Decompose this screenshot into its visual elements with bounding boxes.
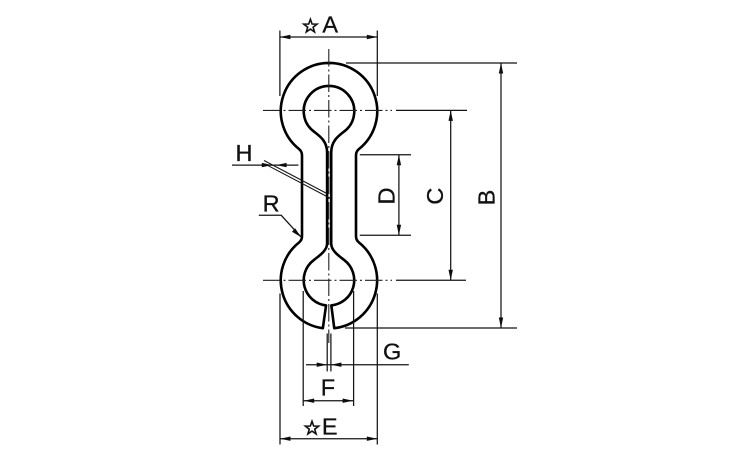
centerline vertical axis (dash-dot) bbox=[328, 49, 330, 343]
centerline top hole (horizontal dash-dot) bbox=[263, 109, 467, 111]
dimension H line bbox=[232, 163, 298, 167]
label F bbox=[321, 374, 335, 400]
svg-text:E: E bbox=[322, 414, 338, 440]
dimension D extension line top bbox=[360, 154, 411, 156]
dimension F extension line left bbox=[302, 291, 304, 406]
svg-text:C: C bbox=[422, 188, 448, 205]
label E bbox=[322, 414, 338, 440]
svg-text:R: R bbox=[263, 191, 280, 217]
label H bbox=[236, 140, 253, 166]
label B (rotated) bbox=[474, 190, 500, 206]
label star A bbox=[304, 19, 317, 32]
svg-text:B: B bbox=[474, 190, 500, 206]
dimension A extension line right bbox=[376, 31, 378, 97]
dimension C line bbox=[449, 110, 453, 280]
dimension E line bbox=[280, 437, 377, 441]
label A bbox=[322, 12, 338, 38]
label C (rotated) bbox=[422, 188, 448, 205]
dimension B extension line top bbox=[346, 62, 517, 64]
dimension D line bbox=[397, 155, 401, 236]
label D (rotated) bbox=[374, 188, 400, 205]
dimension H slanted extension line 2 bbox=[265, 164, 331, 199]
dimension F extension line right bbox=[353, 291, 355, 406]
svg-text:G: G bbox=[383, 338, 401, 364]
svg-text:F: F bbox=[321, 374, 335, 400]
leader R bbox=[259, 215, 301, 237]
centerline bottom hole (horizontal dash-dot) bbox=[263, 279, 466, 281]
dimension G extension line left bbox=[326, 334, 328, 372]
dimension B extension line bottom bbox=[345, 327, 517, 329]
dimension H slanted extension line 1 bbox=[264, 161, 327, 194]
svg-text:D: D bbox=[374, 188, 400, 205]
dimension E extension line left bbox=[279, 294, 281, 445]
dimension G line bbox=[306, 363, 409, 367]
dimension A line bbox=[280, 35, 377, 39]
dimension D extension line bottom bbox=[360, 234, 411, 236]
svg-text:H: H bbox=[236, 140, 253, 166]
dimension A extension line left bbox=[279, 31, 281, 97]
label star E bbox=[305, 421, 318, 434]
dimension G extension line right bbox=[330, 334, 332, 372]
label G bbox=[383, 338, 401, 364]
svg-text:A: A bbox=[322, 12, 338, 38]
dimension F line bbox=[303, 399, 353, 403]
dimension B line bbox=[499, 63, 503, 328]
dimension E extension line right bbox=[376, 294, 378, 445]
label R bbox=[263, 191, 280, 217]
part outline (snap pin body) bbox=[281, 63, 377, 328]
